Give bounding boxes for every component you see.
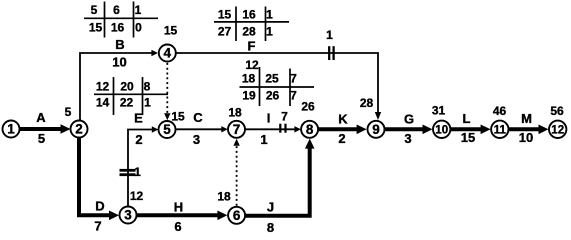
table for activity I (12 / 18|25|7 / 19|26|7) bbox=[240, 67, 315, 106]
node 10 bbox=[433, 121, 450, 138]
svg-text:27: 27 bbox=[218, 25, 232, 39]
svg-text:B: B bbox=[115, 37, 124, 52]
svg-text:D: D bbox=[95, 199, 104, 214]
node 9 bbox=[368, 121, 385, 138]
svg-text:5: 5 bbox=[163, 122, 171, 137]
svg-text:7: 7 bbox=[94, 219, 101, 233]
activity H arrow (3->6, critical) bbox=[137, 211, 228, 221]
dummy arrow 4->5 (dotted) bbox=[164, 63, 170, 120]
svg-text:2: 2 bbox=[135, 132, 142, 147]
node 2 bbox=[71, 121, 88, 138]
svg-text:22: 22 bbox=[120, 96, 134, 110]
svg-text:A: A bbox=[36, 110, 46, 125]
svg-text:12: 12 bbox=[130, 189, 144, 203]
svg-text:12: 12 bbox=[551, 124, 564, 136]
svg-text:8: 8 bbox=[306, 122, 314, 137]
svg-text:28: 28 bbox=[360, 96, 374, 110]
svg-text:6: 6 bbox=[113, 3, 120, 17]
svg-text:26: 26 bbox=[266, 89, 280, 103]
activity J arrow (6->8, critical) bbox=[246, 139, 315, 216]
svg-text:6: 6 bbox=[233, 208, 241, 223]
svg-text:16: 16 bbox=[242, 8, 256, 22]
activity I arrow (7->8) bbox=[245, 126, 301, 132]
svg-text:18: 18 bbox=[217, 190, 231, 204]
svg-text:3: 3 bbox=[193, 132, 200, 147]
svg-text:15: 15 bbox=[218, 8, 232, 22]
lag hash on F line bbox=[329, 46, 333, 60]
node 6 bbox=[228, 207, 245, 224]
svg-text:15: 15 bbox=[89, 21, 103, 35]
svg-text:10: 10 bbox=[435, 124, 448, 136]
svg-text:H: H bbox=[174, 200, 183, 215]
svg-text:16: 16 bbox=[111, 21, 125, 35]
node 12 bbox=[549, 121, 566, 138]
svg-text:2: 2 bbox=[338, 131, 345, 146]
svg-text:J: J bbox=[267, 200, 274, 215]
node 1 bbox=[3, 121, 20, 138]
svg-text:0: 0 bbox=[135, 21, 142, 35]
svg-text:2: 2 bbox=[75, 122, 83, 137]
svg-text:8: 8 bbox=[144, 80, 151, 94]
svg-text:10: 10 bbox=[112, 55, 126, 70]
activity F arrow (4->9) bbox=[176, 53, 381, 120]
svg-text:20: 20 bbox=[120, 80, 134, 94]
svg-text:7: 7 bbox=[281, 110, 288, 124]
svg-text:C: C bbox=[193, 110, 203, 125]
svg-text:1: 1 bbox=[266, 25, 273, 39]
svg-text:15: 15 bbox=[171, 110, 185, 124]
svg-text:19: 19 bbox=[242, 89, 256, 103]
table for activity B (5|6|1 / 15|16|0) bbox=[84, 2, 158, 38]
node 5 bbox=[159, 121, 176, 138]
svg-text:1: 1 bbox=[144, 96, 151, 110]
svg-text:3: 3 bbox=[124, 208, 132, 223]
svg-text:7: 7 bbox=[233, 122, 241, 137]
svg-text:K: K bbox=[338, 112, 348, 127]
activity G arrow (9->10, critical) bbox=[385, 125, 433, 135]
activity E arrow (3->5) bbox=[128, 126, 158, 206]
svg-text:8: 8 bbox=[267, 220, 274, 233]
svg-text:18: 18 bbox=[228, 106, 242, 120]
svg-text:1: 1 bbox=[260, 132, 267, 147]
node 11 bbox=[491, 121, 508, 138]
svg-text:7: 7 bbox=[290, 72, 297, 86]
svg-text:3: 3 bbox=[404, 131, 411, 146]
svg-text:25: 25 bbox=[265, 72, 279, 86]
activity B arrow (2->4) bbox=[80, 50, 158, 120]
svg-text:M: M bbox=[521, 111, 532, 126]
svg-text:1: 1 bbox=[266, 8, 273, 22]
svg-text:5: 5 bbox=[38, 131, 45, 146]
svg-text:18: 18 bbox=[242, 72, 256, 86]
activity M arrow (11->12, critical) bbox=[509, 125, 549, 135]
node 8 bbox=[301, 121, 318, 138]
svg-text:12: 12 bbox=[96, 80, 110, 94]
svg-text:1: 1 bbox=[326, 28, 333, 42]
svg-text:12: 12 bbox=[245, 58, 259, 72]
svg-text:4: 4 bbox=[164, 46, 172, 61]
table for activity E (12|20|8 / 14|22|1) bbox=[94, 77, 168, 115]
svg-text:31: 31 bbox=[432, 104, 446, 118]
activity A arrow (1->2, critical) bbox=[20, 124, 71, 134]
node 7 bbox=[228, 121, 245, 138]
node 4 bbox=[159, 45, 176, 62]
svg-text:26: 26 bbox=[301, 99, 315, 113]
svg-text:15: 15 bbox=[461, 130, 475, 145]
activity D arrow (2->3, critical) bbox=[79, 138, 119, 221]
svg-text:G: G bbox=[404, 112, 414, 127]
svg-text:28: 28 bbox=[242, 25, 256, 39]
svg-text:1: 1 bbox=[135, 3, 142, 17]
svg-text:56: 56 bbox=[550, 104, 564, 118]
lag hash on E line bbox=[120, 170, 136, 174]
svg-text:9: 9 bbox=[372, 122, 380, 137]
svg-text:F: F bbox=[248, 39, 256, 54]
activity L arrow (10->11, critical) bbox=[451, 125, 491, 135]
svg-text:1: 1 bbox=[134, 165, 141, 179]
svg-text:14: 14 bbox=[96, 96, 110, 110]
activity C arrow (5->7) bbox=[176, 126, 228, 132]
svg-text:11: 11 bbox=[494, 124, 507, 136]
node 3 bbox=[120, 207, 137, 224]
dummy arrow 6->7 (dotted) bbox=[233, 139, 239, 206]
lag hash on I line bbox=[280, 124, 285, 133]
svg-text:5: 5 bbox=[91, 3, 98, 17]
svg-text:1: 1 bbox=[7, 122, 15, 137]
svg-text:E: E bbox=[134, 111, 143, 126]
svg-text:7: 7 bbox=[290, 89, 297, 103]
svg-text:L: L bbox=[463, 111, 471, 126]
svg-text:10: 10 bbox=[519, 130, 533, 145]
svg-text:15: 15 bbox=[164, 24, 178, 38]
svg-text:5: 5 bbox=[65, 105, 72, 119]
svg-text:6: 6 bbox=[174, 219, 181, 233]
svg-text:46: 46 bbox=[493, 104, 507, 118]
svg-text:I: I bbox=[267, 111, 271, 126]
table for activity F (15|16|1 / 27|28|1) bbox=[214, 7, 289, 42]
activity K arrow (8->9, critical) bbox=[319, 125, 367, 135]
